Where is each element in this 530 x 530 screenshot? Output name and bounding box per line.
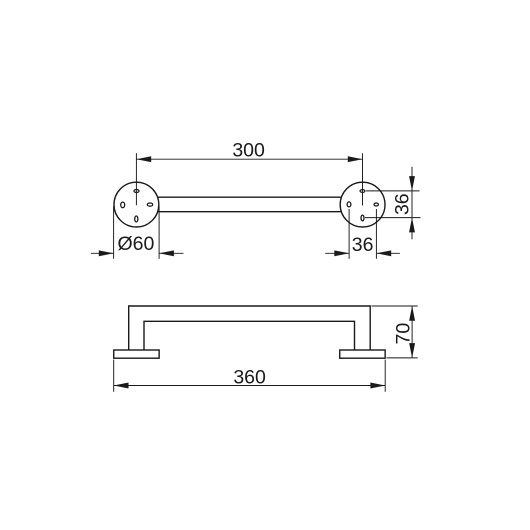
svg-text:360: 360 (233, 366, 266, 388)
svg-text:300: 300 (232, 139, 265, 161)
svg-text:70: 70 (393, 323, 415, 345)
svg-text:36: 36 (392, 193, 414, 215)
svg-text:Ø60: Ø60 (117, 233, 154, 255)
svg-text:36: 36 (352, 234, 374, 256)
